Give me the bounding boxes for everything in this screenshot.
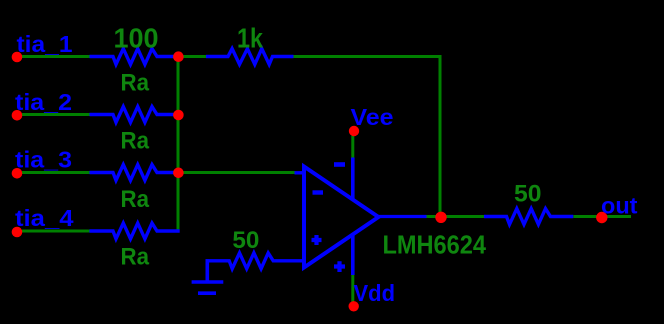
svg-text:tia_4: tia_4 <box>15 205 74 231</box>
svg-text:tia_2: tia_2 <box>15 89 72 115</box>
wire net tia_2 from pin to resistor Ra2 <box>22 113 90 116</box>
svg-text:Ra: Ra <box>121 244 150 271</box>
resistor Ra4 <box>90 223 180 239</box>
svg-text:Vdd: Vdd <box>354 280 396 306</box>
ground symbol bar 1 <box>192 280 224 284</box>
junction node bus row2 <box>173 110 184 121</box>
junction node bus row3 <box>173 168 184 179</box>
svg-text:tia_1: tia_1 <box>17 31 73 57</box>
wire bus to op-amp inverting input <box>178 171 295 174</box>
op-amp non-inverting input plus sign (inside) <box>312 235 322 245</box>
wire op-amp output to 50 ohm resistor <box>427 215 485 218</box>
pin dot out <box>596 212 607 223</box>
pin dot tia_4 <box>12 227 23 238</box>
junction node output/feedback <box>435 212 446 223</box>
svg-text:50: 50 <box>232 227 259 254</box>
wire 50 ohm resistor to out pin <box>573 215 596 218</box>
svg-text:LMH6624: LMH6624 <box>383 230 487 260</box>
pin dot tia_3 <box>12 168 23 179</box>
wire Vdd pin to op-amp <box>351 275 354 304</box>
pin dot Vdd <box>349 301 359 311</box>
op-amp output pin stub <box>379 215 427 218</box>
op-amp Vee power pin stub <box>351 158 355 201</box>
svg-text:Ra: Ra <box>121 186 150 213</box>
resistor 50 at non-inverting input, with wire from ground elbow <box>206 253 305 269</box>
op-amp Vdd pin plus label (outside) <box>334 261 345 272</box>
wire bus to 1k resistor <box>178 55 206 58</box>
wire summing bus vertical <box>177 57 180 232</box>
op-amp Vee pin minus label (outside) <box>334 162 345 167</box>
resistor Ra1 (100) <box>90 49 177 65</box>
op-amp inverting input pin stub <box>295 171 305 174</box>
wire feedback top from 1k to output node <box>294 57 441 218</box>
wire Vee pin to op-amp <box>351 131 354 158</box>
svg-text:100: 100 <box>114 22 159 53</box>
resistor 1k feedback <box>206 49 294 65</box>
op-amp Vdd power pin stub <box>351 234 355 275</box>
op-amp U1 triangle body <box>304 167 379 268</box>
svg-text:Ra: Ra <box>121 70 150 97</box>
svg-text:tia_3: tia_3 <box>15 147 72 173</box>
resistor Ra3 <box>90 165 177 181</box>
svg-text:1k: 1k <box>237 22 263 53</box>
svg-text:Vee: Vee <box>351 104 394 130</box>
pin dot Vee <box>349 126 359 136</box>
pin dot tia_1 <box>12 52 23 63</box>
wire net tia_3 from pin to resistor Ra3 <box>22 171 90 174</box>
ground symbol stem <box>206 259 210 282</box>
resistor Ra2 <box>90 107 177 123</box>
pin dot tia_2 <box>12 110 23 121</box>
op-amp inverting input minus sign (inside) <box>313 190 324 194</box>
wire net tia_4 from pin to resistor Ra4 <box>22 230 90 233</box>
ground symbol bar 2 <box>198 291 216 295</box>
wire net tia_1 from pin to resistor Ra1 <box>22 55 90 58</box>
junction node bus row1 <box>173 51 184 62</box>
resistor 50 at output <box>484 209 573 225</box>
svg-text:out: out <box>601 193 638 219</box>
svg-text:Ra: Ra <box>121 128 150 155</box>
svg-text:50: 50 <box>514 181 542 208</box>
wire out pin stub <box>607 215 631 218</box>
